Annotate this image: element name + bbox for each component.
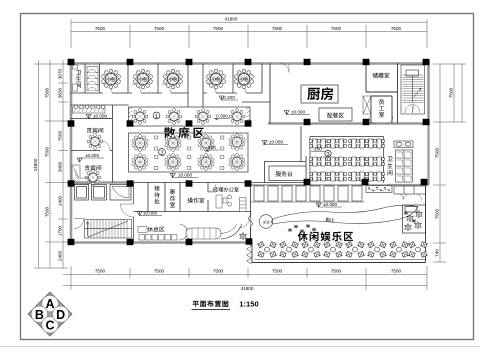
svg-text:7500: 7500 bbox=[435, 208, 440, 219]
room labels bbox=[107, 77, 249, 81]
title: floor plan name bbox=[192, 300, 259, 310]
elevation note 0.200 bbox=[219, 95, 238, 100]
svg-text:7500: 7500 bbox=[154, 26, 165, 31]
svg-text:±0.000: ±0.000 bbox=[269, 140, 283, 145]
small rooms top-right of leisure bbox=[394, 186, 426, 200]
svg-text:±0.000: ±0.000 bbox=[178, 173, 192, 178]
svg-text:7500: 7500 bbox=[45, 206, 50, 217]
band1 number label bbox=[153, 112, 160, 120]
band1 table c bbox=[195, 109, 211, 125]
svg-text:1400: 1400 bbox=[58, 195, 63, 206]
band 2 outline bbox=[129, 133, 249, 172]
door swing arcs of private rooms bbox=[103, 84, 246, 93]
svg-text:740: 740 bbox=[435, 249, 440, 257]
compass / key diagram (diamond with A B C D) bbox=[28, 292, 72, 336]
svg-text:0.300: 0.300 bbox=[216, 113, 228, 118]
svg-text:24800: 24800 bbox=[33, 158, 38, 171]
fountain circle bbox=[259, 215, 273, 229]
svg-text:1700: 1700 bbox=[58, 225, 63, 236]
open seating area title bbox=[164, 127, 204, 138]
band2 row2 tables bbox=[132, 154, 148, 171]
kitchen label box bbox=[301, 85, 338, 103]
exterior and main walls (gray) bbox=[67, 60, 430, 243]
band1 table d bbox=[229, 109, 245, 125]
band1 table b bbox=[166, 109, 182, 125]
storage room label bbox=[372, 73, 389, 78]
svg-text:7500: 7500 bbox=[272, 26, 283, 31]
booth partitions bbox=[75, 183, 134, 243]
room partition walls bbox=[71, 64, 262, 108]
svg-text:1:150: 1:150 bbox=[239, 300, 258, 309]
svg-text:B: B bbox=[35, 308, 44, 322]
svg-text:±0.000: ±0.000 bbox=[291, 110, 305, 115]
band 1 outline bbox=[129, 107, 251, 126]
small chair pairs between tables bbox=[155, 136, 224, 170]
svg-text:A: A bbox=[45, 297, 54, 311]
VIP room 2 label bbox=[85, 165, 102, 170]
top dimension lines bbox=[71, 19, 427, 48]
right dimension labels (rotated) bbox=[435, 87, 454, 256]
band2 number label bbox=[159, 149, 166, 157]
svg-text:D: D bbox=[56, 308, 65, 322]
top dimension labels bbox=[95, 17, 402, 31]
VIP room 2 table bbox=[85, 170, 101, 186]
band2 row1 tables bbox=[132, 135, 148, 152]
svg-text:7500: 7500 bbox=[213, 269, 224, 274]
note 200 area3 bbox=[311, 147, 325, 152]
serving area label bbox=[327, 113, 344, 118]
column row B bbox=[68, 120, 75, 126]
svg-text:±0.000: ±0.000 bbox=[85, 153, 99, 158]
kitchen walls bbox=[270, 64, 398, 124]
restroom label (vertical) bbox=[76, 71, 81, 88]
kitchen level mark bbox=[284, 110, 310, 115]
svg-text:7500: 7500 bbox=[391, 26, 402, 31]
round table room 2 bbox=[134, 69, 153, 89]
manager office desk bbox=[216, 195, 246, 212]
level mark lobby bbox=[262, 140, 288, 145]
sink counter bbox=[394, 141, 413, 148]
svg-text:0.200: 0.200 bbox=[223, 95, 235, 100]
left dimension labels (rotated) bbox=[33, 68, 63, 261]
svg-text:C: C bbox=[45, 318, 54, 332]
svg-text:±0.000: ±0.000 bbox=[143, 211, 157, 216]
door arc to lower-left room bbox=[74, 219, 84, 229]
level mark +-0.000 under band2 bbox=[170, 173, 198, 178]
svg-text:7500: 7500 bbox=[213, 26, 224, 31]
service desk box bbox=[269, 166, 306, 181]
rockery label bbox=[326, 218, 335, 222]
column row C bbox=[68, 180, 75, 186]
svg-text:2: 2 bbox=[160, 151, 163, 157]
bench seats row bbox=[139, 235, 177, 241]
svg-text:±0.000: ±0.000 bbox=[93, 114, 107, 119]
area3 outline bbox=[310, 137, 384, 184]
room bottom wall with door gaps bbox=[71, 92, 262, 94]
door arcs offices bbox=[208, 184, 251, 228]
bottom dimension labels bbox=[95, 269, 402, 291]
staff room label (vertical) bbox=[379, 99, 384, 117]
office walls bbox=[134, 183, 311, 243]
svg-text:3: 3 bbox=[326, 152, 329, 158]
level mark +8.000 rest bbox=[137, 211, 162, 216]
corridor gap walls bbox=[187, 93, 189, 107]
svg-text:41800: 41800 bbox=[225, 17, 238, 22]
svg-text:7500: 7500 bbox=[95, 269, 106, 274]
hatched wall edge bbox=[247, 243, 252, 264]
note 200 with arrow bbox=[205, 145, 219, 152]
right wall segment bbox=[387, 124, 429, 186]
restroom label (vertical) bbox=[387, 157, 392, 176]
reception label (vertical) bbox=[154, 186, 159, 205]
bottom dimension lines bbox=[63, 266, 427, 290]
pebble strip bbox=[366, 186, 392, 193]
svg-text:1: 1 bbox=[155, 114, 158, 120]
left dimension lines bbox=[34, 60, 75, 268]
service desk label bbox=[276, 171, 293, 176]
round table room 5 bbox=[235, 69, 254, 89]
scattered flowers bbox=[288, 224, 317, 233]
note 0.300 with arrow bbox=[214, 113, 230, 120]
plants in planter bbox=[404, 211, 423, 231]
svg-text:7500: 7500 bbox=[58, 130, 63, 141]
svg-text:3400: 3400 bbox=[58, 161, 63, 172]
svg-text:7500: 7500 bbox=[331, 26, 342, 31]
leisure area title bbox=[298, 232, 354, 242]
column row A bbox=[68, 59, 75, 65]
toilet stalls bbox=[396, 150, 413, 182]
svg-text:200: 200 bbox=[208, 145, 216, 150]
svg-text:7500: 7500 bbox=[154, 269, 165, 274]
restroom fixtures bbox=[73, 65, 78, 91]
VIP room 1 label bbox=[87, 128, 104, 133]
column row D bbox=[68, 239, 75, 245]
svg-text:7500: 7500 bbox=[45, 87, 50, 98]
operation room label bbox=[188, 198, 205, 203]
cloakroom label (vertical) bbox=[170, 189, 175, 207]
svg-text:±0.000: ±0.000 bbox=[323, 202, 337, 207]
kitchen door arcs bbox=[280, 64, 393, 124]
hatched band ends bbox=[129, 107, 251, 125]
round table room 3 bbox=[164, 69, 183, 89]
svg-text:200: 200 bbox=[314, 147, 322, 152]
small sofa rect bbox=[138, 227, 147, 233]
round table room 4 bbox=[207, 69, 226, 89]
lobby walls bbox=[264, 126, 306, 183]
svg-text:2400: 2400 bbox=[58, 250, 63, 261]
curved sofa bbox=[179, 224, 187, 240]
svg-text:3630: 3630 bbox=[58, 87, 63, 98]
leisure seating clusters bbox=[258, 241, 277, 257]
area3 number label bbox=[325, 150, 331, 158]
svg-text:7500: 7500 bbox=[95, 26, 106, 31]
svg-text:7500: 7500 bbox=[391, 269, 402, 274]
level mark +-0.000 VIP2 bbox=[77, 153, 104, 162]
svg-text:7500: 7500 bbox=[331, 269, 342, 274]
leisure outer walls bbox=[252, 185, 426, 263]
svg-text:7500: 7500 bbox=[449, 87, 454, 98]
plant at leisure entrance bbox=[240, 233, 247, 240]
VIP room 1 table bbox=[87, 134, 103, 150]
svg-text:7500: 7500 bbox=[435, 147, 440, 158]
svg-text:41800: 41800 bbox=[241, 286, 254, 291]
rest area label bbox=[147, 227, 164, 232]
bottom separator line bbox=[0, 346, 480, 348]
round table room 1 bbox=[102, 69, 121, 89]
VIP room walls bbox=[71, 102, 270, 183]
planter box right bbox=[403, 205, 426, 233]
area3 tables grid bbox=[310, 139, 329, 148]
L-shaped sofa bbox=[72, 165, 89, 184]
kitchen label bbox=[307, 87, 333, 100]
long counter bbox=[186, 228, 221, 239]
serving area box bbox=[319, 108, 352, 121]
entry double doors from rest area bbox=[249, 212, 253, 243]
dumbwaiter x-brace bbox=[363, 96, 371, 114]
manager office label bbox=[213, 187, 239, 192]
rockery (curvy landscape shape) bbox=[272, 205, 419, 224]
svg-text:3070: 3070 bbox=[58, 68, 63, 79]
band1 table a bbox=[132, 109, 148, 125]
level mark +-0.000 upper bbox=[86, 114, 112, 119]
svg-text:7500: 7500 bbox=[45, 146, 50, 157]
curved wall sweep bbox=[221, 224, 242, 239]
right dimension lines bbox=[433, 64, 466, 262]
staircase bbox=[85, 220, 132, 239]
leisure level mark bbox=[316, 202, 342, 207]
stool counter bbox=[73, 105, 106, 113]
svg-text:7500: 7500 bbox=[272, 269, 283, 274]
sofa bench stack bbox=[87, 67, 98, 91]
colonnade screen row bbox=[251, 185, 388, 202]
